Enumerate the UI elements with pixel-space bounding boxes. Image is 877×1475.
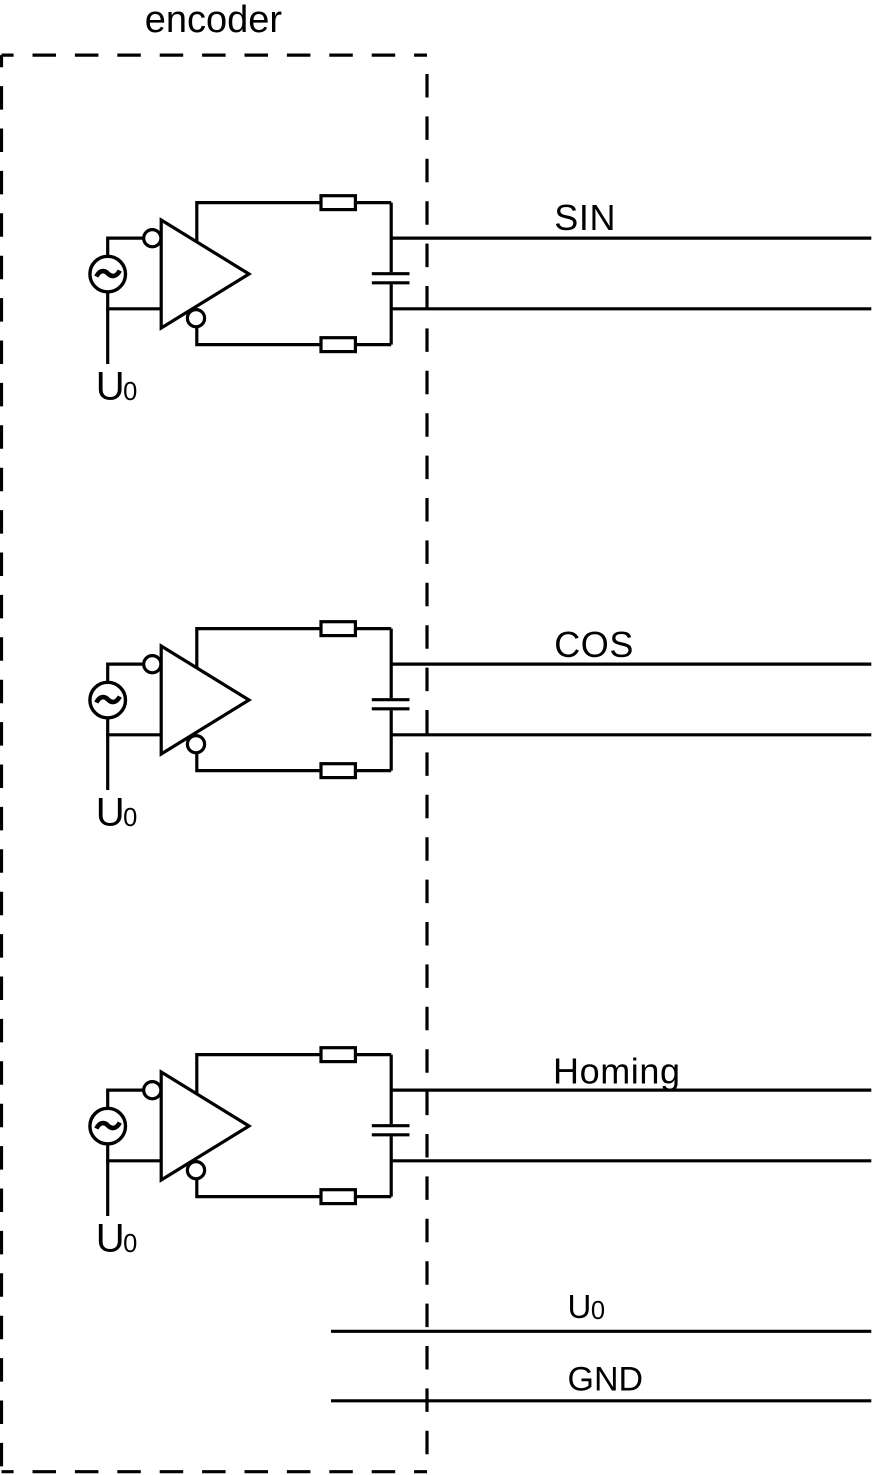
amplifier A2 triangle (161, 646, 249, 754)
AC source V2 sine symbol (96, 697, 119, 703)
wire: top feedback, amp top edge up and right to output node (197, 629, 391, 668)
svg-text:U0: U0 (96, 365, 138, 409)
wire: source top terminal to non-inverting input (108, 664, 150, 682)
wire: junction to inverting input (106, 1159, 160, 1162)
wire: top feedback, amp top edge up and right to output node (197, 203, 391, 242)
wire: junction to inverting input (106, 307, 160, 310)
wire: Homing- output line (391, 1159, 871, 1162)
encoder dashed boundary box: top edge (2, 53, 428, 56)
resistor R2b (bottom) (321, 764, 355, 778)
wire: Homing+ output line (391, 1088, 871, 1091)
output bubble (bottom) of amplifier A1 (187, 310, 204, 327)
wire: junction to inverting input (106, 733, 160, 736)
svg-text:SIN: SIN (554, 197, 616, 238)
wire: right vertical bus upper segment (390, 629, 393, 699)
wire: source bottom terminal down to U0 stub (106, 718, 109, 791)
wire: SIN- output line (391, 307, 871, 310)
wire: COS- output line (391, 733, 871, 736)
wire: right vertical bus lower segment (390, 1136, 393, 1196)
svg-text:COS: COS (554, 624, 634, 665)
svg-text:encoder: encoder (145, 0, 283, 41)
wire: GND rail (331, 1399, 871, 1402)
amplifier A3 triangle (161, 1072, 249, 1180)
AC source V2 (90, 682, 126, 718)
input bubble (top) of amplifier A2 (144, 656, 161, 673)
wire: SIN+ output line (391, 237, 871, 240)
wire: source top terminal to non-inverting input (108, 238, 150, 256)
svg-text:U0: U0 (96, 791, 138, 835)
encoder dashed boundary box: right edge (425, 55, 428, 1472)
wire: source top terminal to non-inverting input (108, 1090, 150, 1108)
resistor R2a (top) (321, 622, 355, 636)
svg-text:U0: U0 (568, 1288, 606, 1325)
wire: bottom feedback, bubble down and right to output node (197, 753, 391, 771)
wire: right vertical bus upper segment (390, 203, 393, 273)
wire: source bottom terminal down to U0 stub (106, 292, 109, 365)
svg-text:GND: GND (568, 1360, 644, 1398)
wire: COS+ output line (391, 662, 871, 665)
resistor R1a (top) (321, 196, 355, 210)
resistor R3b (bottom) (321, 1190, 355, 1204)
output bubble (bottom) of amplifier A2 (187, 736, 204, 753)
input bubble (top) of amplifier A3 (144, 1082, 161, 1099)
AC source V3 (90, 1108, 126, 1144)
encoder dashed boundary box: left edge (0, 55, 3, 1472)
wire: right vertical bus lower segment (390, 710, 393, 770)
wire: bottom feedback, bubble down and right to output node (197, 327, 391, 345)
AC source V1 (90, 256, 126, 292)
resistor R1b (bottom) (321, 338, 355, 352)
wire: right vertical bus upper segment (390, 1055, 393, 1125)
input bubble (top) of amplifier A1 (144, 230, 161, 247)
svg-text:U0: U0 (96, 1217, 138, 1261)
amplifier A1 triangle (161, 220, 249, 328)
wire: bottom feedback, bubble down and right to output node (197, 1179, 391, 1197)
output bubble (bottom) of amplifier A3 (187, 1162, 204, 1179)
wire: top feedback, amp top edge up and right to output node (197, 1055, 391, 1094)
capacitor C3 (372, 1126, 410, 1135)
wire: U0 supply rail (331, 1330, 871, 1333)
wire: source bottom terminal down to U0 stub (106, 1144, 109, 1217)
resistor R3a (top) (321, 1048, 355, 1062)
AC source V3 sine symbol (96, 1123, 119, 1129)
wire: right vertical bus lower segment (390, 284, 393, 344)
capacitor C2 (372, 700, 410, 709)
svg-text:Homing: Homing (553, 1050, 681, 1091)
capacitor C1 (372, 274, 410, 283)
AC source V1 sine symbol (96, 271, 119, 277)
encoder dashed boundary box: bottom edge (2, 1470, 428, 1473)
